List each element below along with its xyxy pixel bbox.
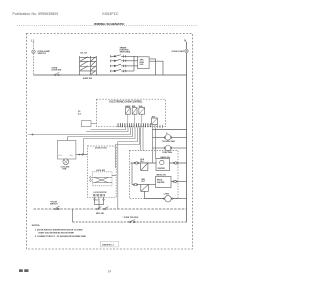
terminal O row1: [135, 162, 137, 164]
door switch lower left: [55, 206, 60, 210]
wire bottom bus: [73, 221, 187, 223]
schematic ID box: [100, 241, 119, 247]
cam pins row: [93, 194, 104, 197]
row2 wire: [132, 184, 156, 186]
svg-text:WIRING SCHEMATIC: WIRING SCHEMATIC: [94, 22, 125, 26]
wire drop to connector: [83, 139, 85, 155]
MDL switches on bus: [97, 207, 109, 210]
svg-text:DOOR LOCK: DOOR LOCK: [95, 147, 107, 149]
relay section dashed box: [130, 151, 179, 199]
svg-text:DOOR SW: DOOR SW: [52, 69, 62, 71]
lamp left oven lamp: [32, 50, 36, 54]
svg-text:LOCK MOTOR: LOCK MOTOR: [94, 192, 108, 194]
terminal O row2: [134, 183, 136, 185]
relay DLB square: [141, 163, 148, 170]
terminal O row2 right: [174, 180, 176, 182]
svg-text:1. DOOR SWITCH SHOWN WITH DOOR: 1. DOOR SWITCH SHOWN WITH DOOR CLOSED: [35, 229, 83, 231]
connector P1 stub box: [82, 121, 92, 127]
wire EOC to N: [153, 129, 187, 131]
svg-text:OVEN TOD SHOWN AT ROOM TEMP: OVEN TOD SHOWN AT ROOM TEMP: [38, 231, 74, 234]
spark switch contact rows: [111, 55, 138, 73]
row1 wire: [131, 162, 187, 164]
arrow to box edge: [112, 175, 116, 177]
junction dot left bus: [32, 134, 34, 136]
svg-text:IGNITER: IGNITER: [158, 168, 166, 170]
svg-text:Publication No: 5995539809: Publication No: 5995539809: [13, 12, 59, 16]
wire drop into transformer: [67, 137, 69, 141]
connector pair to lock box: [76, 154, 88, 156]
dotted rule under header: [17, 25, 198, 27]
wire drops to lock area: [115, 145, 117, 169]
igniter box 1: [156, 159, 170, 171]
svg-text:SEL SW: SEL SW: [80, 53, 87, 55]
relay broil square: [141, 184, 149, 191]
svg-text:OVEN LIGHT: OVEN LIGHT: [172, 51, 185, 53]
motor on transformer box bottom: [63, 159, 69, 165]
transformer dashed box: [58, 141, 76, 160]
wire main horizontal L1 bus: [34, 74, 187, 76]
wires below lock box: [94, 197, 104, 209]
cooling fan motor circle: [153, 137, 166, 139]
svg-text:CONV FAN: CONV FAN: [162, 151, 172, 154]
oven TOD switch: [129, 220, 135, 223]
svg-text:GS63PZC: GS63PZC: [102, 12, 119, 16]
wire long dashed bus: [34, 208, 187, 210]
svg-text:FAN: FAN: [63, 168, 67, 171]
svg-text:GS63PZC-1: GS63PZC-1: [102, 244, 115, 246]
EOC dashed box: [97, 99, 166, 127]
convection fan motor circle: [153, 147, 166, 149]
wire drops to relay box area: [140, 127, 142, 150]
wire L1 vertical dashed: [33, 42, 35, 75]
door switch on main bus: [54, 72, 59, 76]
pins EOC bottom: [118, 123, 150, 127]
wire spark module to main bus 1: [149, 59, 156, 75]
wire stub between buses: [72, 209, 74, 222]
svg-text:NOTES:: NOTES:: [32, 225, 41, 227]
svg-text:IGNITER: IGNITER: [157, 182, 165, 184]
svg-text:ELECTRONIC OVEN CONTROL: ELECTRONIC OVEN CONTROL: [110, 102, 144, 104]
wire spark module to main bus 2: [149, 61, 163, 75]
svg-text:MDL SW: MDL SW: [96, 213, 104, 215]
svg-text:1 2 3: 1 2 3: [95, 200, 99, 202]
spark module box: [138, 57, 150, 69]
svg-text:CONV: CONV: [164, 194, 170, 196]
svg-text:COOLING FAN: COOLING FAN: [162, 140, 176, 143]
svg-text:N: N: [184, 39, 186, 42]
lock dashed box: [88, 146, 117, 197]
svg-text:+O+: +O+: [70, 155, 74, 157]
pins K4 bottom: [153, 125, 163, 128]
schematic dashed frame: [27, 34, 193, 250]
svg-text:SURF SW: SURF SW: [83, 78, 92, 80]
vertical connect row1-row2: [131, 163, 133, 185]
svg-text:2. CONNECTORS P1 - P5 SHOWN FR: 2. CONNECTORS P1 - P5 SHOWN FROM WIRE SI…: [35, 236, 87, 238]
svg-text:+O+: +O+: [58, 155, 62, 157]
wire common vertical: [133, 56, 135, 71]
svg-text:SWITCH: SWITCH: [38, 53, 47, 55]
lock switch box: [93, 172, 113, 186]
footer revision code: [19, 269, 23, 272]
svg-text:LOCK SW: LOCK SW: [96, 170, 105, 172]
selector switch block: [80, 56, 97, 75]
svg-text:SWITCH: SWITCH: [50, 204, 58, 206]
svg-text:SWITCHES: SWITCHES: [120, 52, 131, 54]
lamp right oven light: [185, 49, 189, 53]
terminal O row1 right: [175, 162, 177, 164]
bundle elbow wires from EOC pins: [28, 127, 140, 144]
svg-text:14: 14: [108, 269, 112, 273]
svg-text:* OVEN TOD 350F: * OVEN TOD 350F: [123, 217, 140, 219]
wire N vertical: [186, 42, 188, 222]
